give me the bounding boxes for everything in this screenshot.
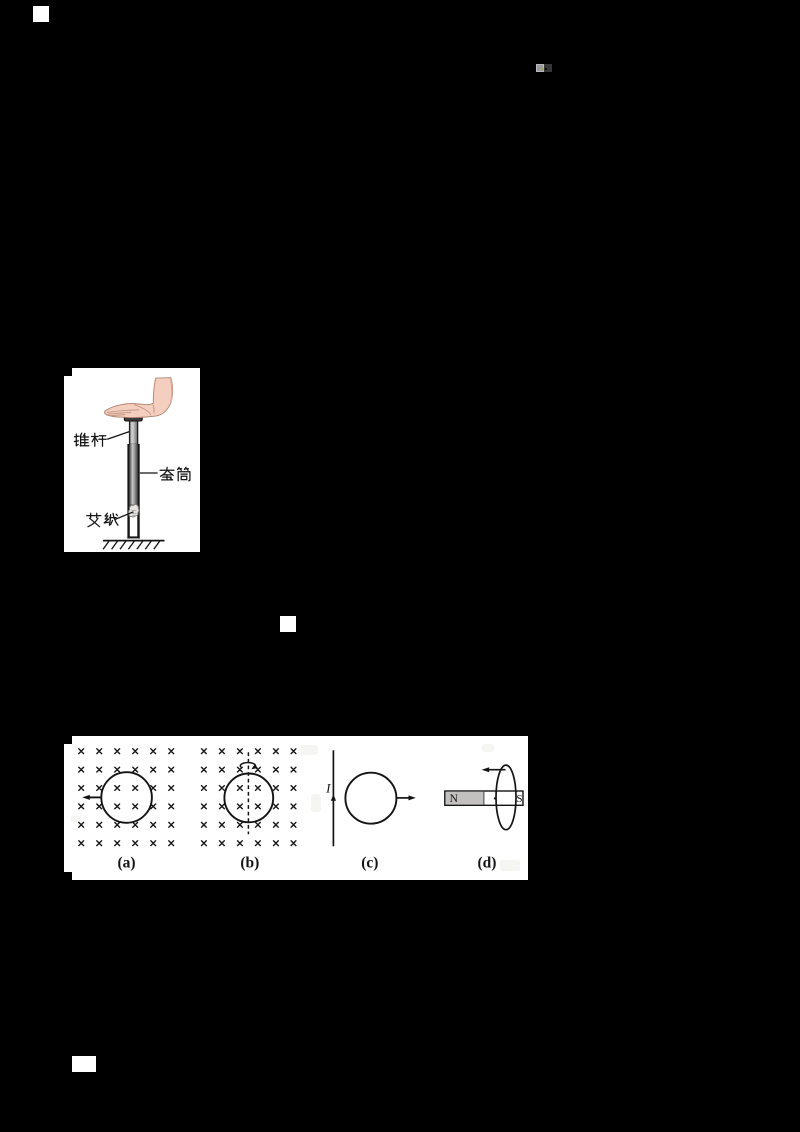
svg-text:N: N bbox=[450, 793, 459, 805]
diagram (b) rotation arrow bbox=[240, 763, 255, 768]
svg-text:(a): (a) bbox=[117, 854, 135, 871]
diagram (a) circular loop bbox=[101, 772, 152, 823]
push rod bbox=[130, 421, 138, 444]
svg-text:I: I bbox=[325, 781, 331, 796]
forearm shading bbox=[171, 379, 172, 403]
diagram (b) circular loop bbox=[224, 774, 273, 823]
label tui gan (push rod) bbox=[74, 433, 88, 446]
figure 1: fire piston bbox=[64, 368, 200, 552]
finger lines bbox=[107, 405, 154, 416]
tiny icon right dark square bbox=[544, 64, 552, 72]
tiny icon dark mark bbox=[545, 68, 547, 70]
diagram (b) dashed rotation axis bbox=[247, 752, 249, 834]
cotton (ai rong) blob bbox=[129, 504, 139, 517]
diagram (d) velocity arrow left bbox=[489, 769, 506, 771]
svg-text:(c): (c) bbox=[361, 854, 378, 871]
svg-text:(d): (d) bbox=[478, 854, 497, 871]
white rect marker bottom-left bbox=[72, 1056, 96, 1072]
diagram (c) velocity arrow right bbox=[397, 797, 409, 799]
tiny icon left gray square bbox=[536, 64, 544, 72]
white square marker top-left bbox=[33, 6, 49, 22]
piston cap bbox=[124, 416, 142, 421]
svg-text:S: S bbox=[516, 793, 522, 805]
piston inside sleeve bbox=[130, 444, 138, 506]
pointer line to sleeve bbox=[140, 472, 158, 474]
label ai rong (cotton) bbox=[87, 513, 101, 527]
pointer line to cotton bbox=[115, 512, 134, 520]
label tao tong (sleeve) bbox=[160, 467, 174, 480]
figure1 black corner notch bbox=[64, 368, 72, 376]
figure2 white background bbox=[64, 736, 528, 880]
tiny icon yellow dot bbox=[542, 68, 545, 71]
figure1 white background bbox=[64, 368, 200, 552]
ground line bbox=[103, 540, 165, 542]
sleeve outer tube right wall bbox=[137, 444, 139, 539]
diagram (a) field-into-page x grid bbox=[79, 749, 174, 846]
diagram (b) field-into-page x grid bbox=[202, 749, 296, 846]
diagram (a) velocity arrow left bbox=[89, 796, 102, 798]
diagram (d) coil ellipse bbox=[496, 765, 516, 830]
figure2 corner notches bbox=[64, 736, 72, 744]
diagram (d) bar magnet bbox=[445, 791, 523, 805]
center dot bbox=[494, 797, 496, 799]
sleeve outer tube left wall bbox=[127, 444, 129, 539]
diagram (c) circular loop bbox=[345, 773, 396, 824]
svg-text:(b): (b) bbox=[240, 854, 259, 871]
hand pressing down bbox=[104, 378, 172, 418]
tube bottom cap bbox=[127, 536, 139, 538]
figure 2: four induction diagrams bbox=[64, 736, 528, 880]
faint scan smudges bbox=[71, 744, 520, 871]
ground hatching bbox=[103, 541, 160, 549]
pointer line to push rod bbox=[107, 432, 129, 440]
white square marker middle bbox=[280, 616, 296, 632]
diagram (c) straight wire with current I bbox=[332, 750, 334, 846]
